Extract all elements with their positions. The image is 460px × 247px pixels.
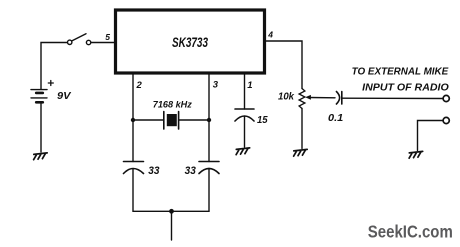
svg-text:SK3733: SK3733 [172, 35, 208, 50]
wire battery to ground [40, 104, 42, 153]
wire bottom rail [133, 210, 209, 212]
ground (pot) [294, 149, 308, 156]
node rail junction dot [169, 209, 174, 214]
svg-text:1: 1 [247, 80, 252, 91]
svg-text:INPUT OF RADIO: INPUT OF RADIO [362, 82, 449, 93]
wire pin5 to switch [92, 42, 115, 44]
wire pin4 to pot [266, 41, 302, 89]
svg-text:7168 kHz: 7168 kHz [153, 100, 192, 110]
crystal Y1 [163, 112, 165, 130]
switch S1 [86, 40, 90, 44]
wire crystal left [133, 119, 164, 121]
terminal T1 [443, 95, 449, 101]
potentiometer R1 zigzag [299, 89, 305, 109]
wire crystal right [179, 119, 209, 121]
wire pin1 down [244, 75, 246, 110]
svg-text:0.1: 0.1 [328, 113, 344, 124]
wire C2 to rail [208, 169, 210, 212]
svg-text:15: 15 [257, 115, 268, 126]
ground (T2) [409, 151, 423, 158]
svg-text:33: 33 [148, 165, 160, 177]
wire pin3 down [208, 75, 210, 162]
svg-text:9V: 9V [57, 91, 72, 102]
node junction dot left [131, 118, 135, 122]
ground (battery) [34, 153, 48, 160]
capacitor C2 33 [199, 161, 219, 163]
wire T2 to ground [418, 121, 443, 151]
wire rail stub down [171, 211, 173, 240]
battery B1 plus sign [48, 81, 53, 86]
svg-text:4: 4 [267, 30, 273, 40]
wire C1 to rail [132, 169, 134, 212]
wire C4 to terminal [342, 97, 443, 99]
battery B1 plates [31, 89, 47, 91]
wire C3 to ground [244, 116, 246, 147]
op-amp U1 SK3733 IC body [116, 10, 265, 73]
terminal T2 [443, 117, 449, 123]
capacitor C4 0.1 [336, 92, 339, 105]
wire pin2 down [132, 75, 134, 162]
svg-text:3: 3 [213, 80, 219, 91]
svg-text:TO EXTERNAL MIKE: TO EXTERNAL MIKE [352, 67, 449, 78]
svg-text:33: 33 [185, 165, 197, 177]
svg-text:5: 5 [105, 32, 110, 42]
node junction dot right [207, 118, 211, 122]
wire switch to battery [41, 43, 67, 90]
wire wiper to C4 [310, 97, 336, 99]
svg-text:2: 2 [136, 80, 143, 91]
capacitor C3 15 [235, 108, 254, 110]
capacitor C1 33 [124, 161, 144, 163]
potentiometer wiper arrow [306, 96, 310, 100]
ground (C3) [236, 148, 250, 155]
wire pot to ground [301, 109, 303, 149]
svg-text:10k: 10k [278, 91, 294, 102]
svg-text:SeekIC.com: SeekIC.com [368, 222, 453, 242]
